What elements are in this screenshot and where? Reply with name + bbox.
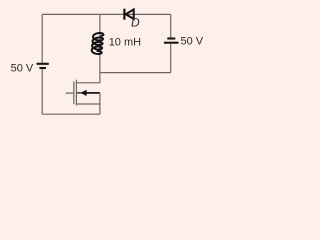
wire left vertical upper bbox=[41, 14, 43, 62]
wire right vertical upper bbox=[170, 14, 172, 37]
wire right vertical lower bbox=[170, 44, 172, 73]
wire return from right branch to drain node bbox=[100, 72, 171, 74]
transistor Q1 channel line bbox=[75, 80, 77, 106]
transistor Q1 source stub bbox=[76, 103, 100, 105]
wire top from battery V1 through diode node bbox=[42, 13, 171, 15]
transistor Q1 gate lead bbox=[66, 92, 74, 94]
battery V2 short plate bbox=[167, 37, 175, 39]
svg-text:D: D bbox=[131, 15, 140, 29]
wire source-body to bottom bbox=[99, 93, 101, 114]
diode D triangle bbox=[126, 9, 134, 19]
battery V2 long plate bbox=[164, 42, 179, 44]
battery V1 long plate bbox=[37, 63, 49, 65]
battery V1 short plate bbox=[39, 67, 46, 69]
transistor Q1 body line thin segment bbox=[77, 92, 82, 94]
svg-text:50 V: 50 V bbox=[181, 36, 204, 48]
transistor Q1 gate electrode bbox=[73, 82, 75, 105]
wire left vertical lower bbox=[41, 69, 43, 114]
transistor Q1 body arrowhead bbox=[80, 90, 86, 96]
svg-text:50 V: 50 V bbox=[11, 62, 34, 74]
diode D cathode bar bbox=[123, 9, 125, 20]
wire bottom bbox=[42, 113, 100, 115]
transistor Q1 body line bbox=[86, 92, 100, 94]
transistor Q1 drain stub bbox=[76, 82, 100, 84]
inductor L1 coil bbox=[92, 33, 104, 54]
wire inductor branch vertical bbox=[99, 14, 101, 82]
svg-text:10 mH: 10 mH bbox=[109, 36, 141, 48]
